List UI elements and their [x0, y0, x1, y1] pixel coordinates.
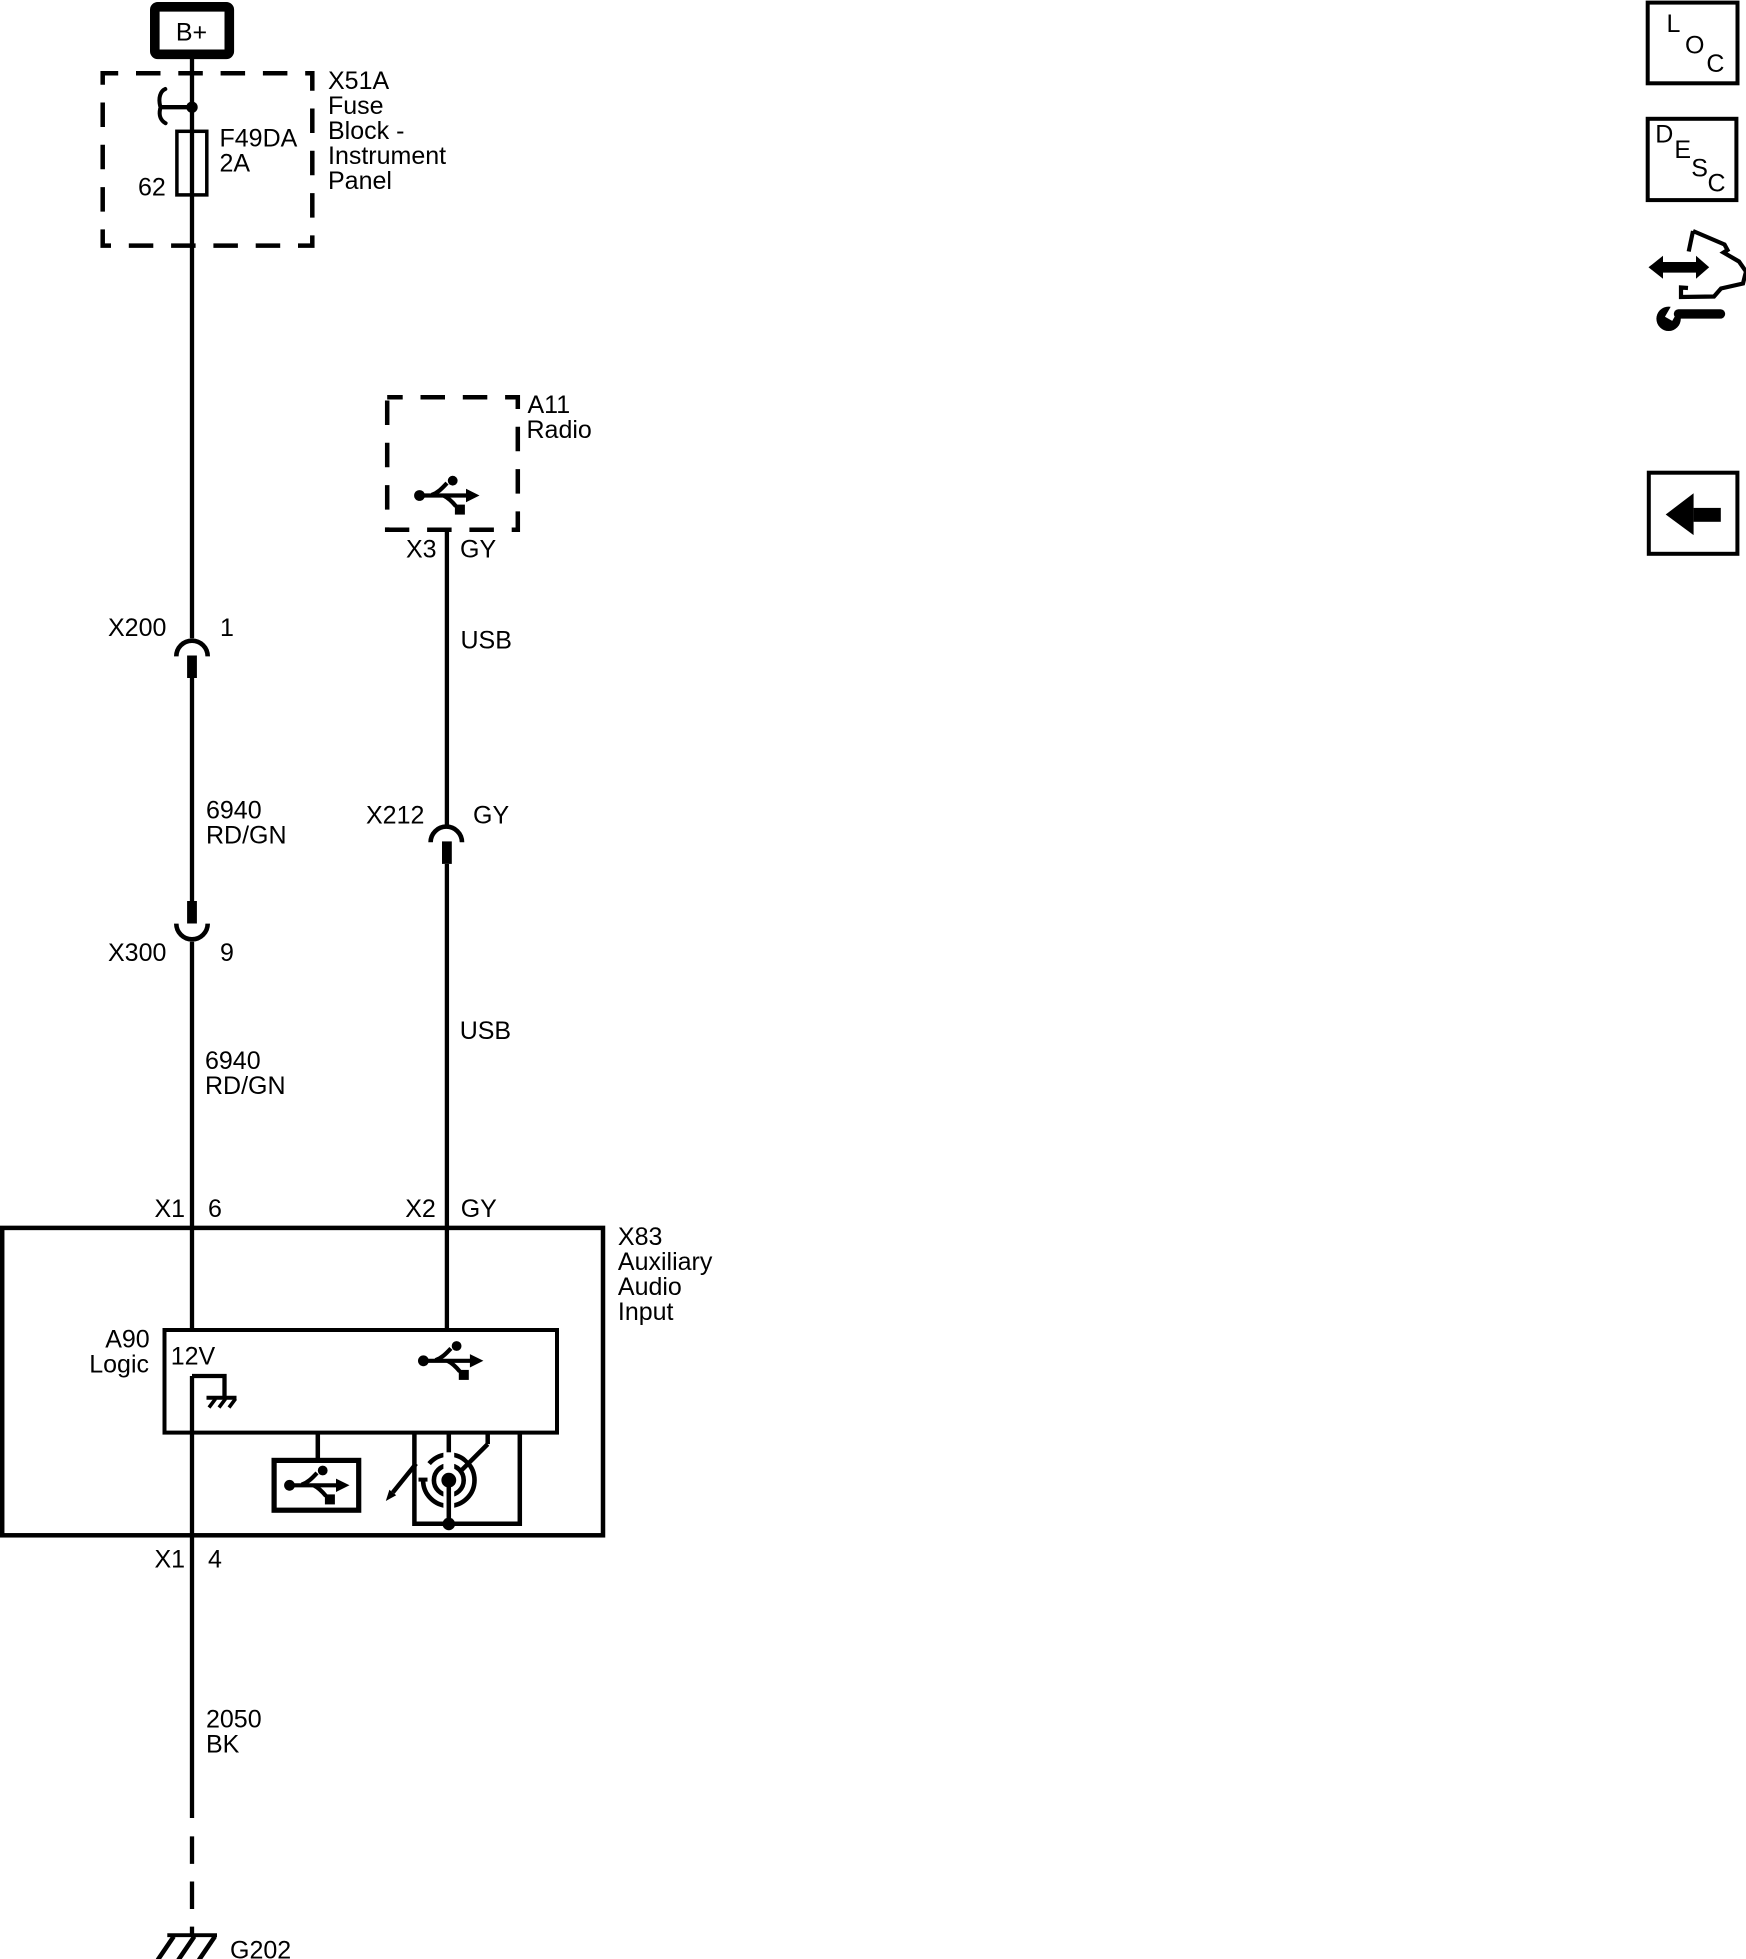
svg-text:X212: X212 [366, 802, 424, 830]
svg-text:Logic: Logic [89, 1350, 149, 1378]
svg-text:62: 62 [138, 174, 166, 202]
svg-text:GY: GY [461, 1195, 497, 1223]
svg-text:USB: USB [461, 627, 512, 655]
svg-text:X83: X83 [618, 1223, 662, 1251]
svg-text:G202: G202 [230, 1937, 291, 1959]
svg-text:L: L [1667, 10, 1681, 38]
svg-text:B+: B+ [176, 19, 207, 47]
svg-text:D: D [1655, 121, 1673, 149]
svg-text:Audio: Audio [618, 1273, 682, 1301]
svg-text:A11: A11 [528, 391, 571, 419]
svg-text:6: 6 [208, 1195, 222, 1223]
svg-text:X300: X300 [108, 939, 166, 967]
svg-text:C: C [1706, 50, 1724, 78]
svg-text:Auxiliary: Auxiliary [618, 1248, 713, 1276]
svg-text:X200: X200 [108, 614, 166, 642]
svg-text:S: S [1691, 154, 1708, 182]
svg-text:2050: 2050 [206, 1706, 262, 1734]
svg-text:X1: X1 [155, 1545, 186, 1573]
svg-text:Fuse: Fuse [328, 92, 384, 120]
svg-text:C: C [1708, 170, 1726, 198]
svg-text:X3: X3 [406, 536, 437, 564]
svg-text:GY: GY [460, 536, 496, 564]
svg-text:USB: USB [460, 1017, 511, 1045]
svg-text:12V: 12V [171, 1343, 216, 1371]
svg-text:GY: GY [473, 802, 509, 830]
svg-text:X2: X2 [405, 1195, 436, 1223]
svg-text:BK: BK [206, 1731, 240, 1759]
svg-text:O: O [1685, 31, 1704, 59]
svg-text:A90: A90 [105, 1326, 149, 1354]
svg-text:RD/GN: RD/GN [205, 1072, 286, 1100]
svg-text:X1: X1 [155, 1195, 186, 1223]
svg-text:Block -: Block - [328, 117, 404, 145]
svg-text:Instrument: Instrument [328, 142, 446, 170]
svg-text:F49DA: F49DA [220, 125, 298, 153]
svg-text:X51A: X51A [328, 67, 389, 95]
svg-text:2A: 2A [220, 150, 251, 178]
svg-text:Input: Input [618, 1298, 674, 1326]
svg-text:Radio: Radio [527, 416, 592, 444]
svg-text:9: 9 [220, 939, 234, 967]
svg-text:RD/GN: RD/GN [206, 822, 287, 850]
svg-text:6940: 6940 [205, 1047, 261, 1075]
svg-text:6940: 6940 [206, 797, 262, 825]
svg-text:1: 1 [220, 614, 234, 642]
svg-text:Panel: Panel [328, 167, 392, 195]
svg-text:4: 4 [208, 1545, 222, 1573]
svg-text:E: E [1674, 136, 1691, 164]
